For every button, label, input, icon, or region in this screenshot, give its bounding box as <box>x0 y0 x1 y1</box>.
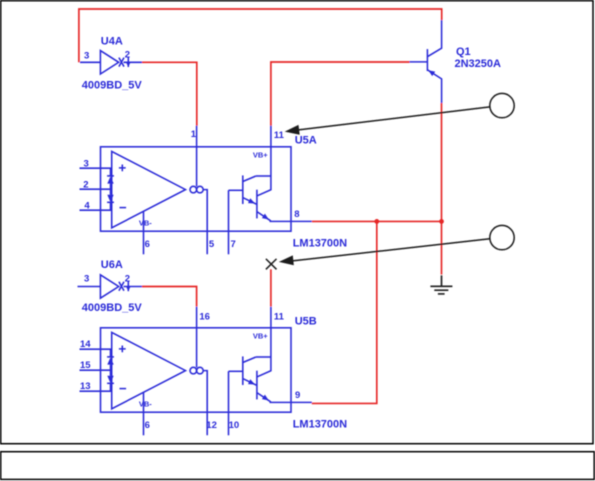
svg-text:12: 12 <box>206 420 217 431</box>
svg-text:11: 11 <box>274 311 285 322</box>
svg-text:9: 9 <box>295 390 300 401</box>
svg-text:VB+: VB+ <box>253 332 268 341</box>
svg-text:U5B: U5B <box>295 315 317 327</box>
svg-text:5: 5 <box>209 239 215 250</box>
svg-text:3: 3 <box>84 158 89 169</box>
svg-text:6: 6 <box>145 420 150 431</box>
svg-text:4009BD_5V: 4009BD_5V <box>82 80 143 92</box>
svg-text:LM13700N: LM13700N <box>293 418 347 430</box>
svg-text:13: 13 <box>80 381 91 392</box>
svg-text:16: 16 <box>199 311 210 322</box>
svg-text:7: 7 <box>231 239 236 250</box>
svg-text:11: 11 <box>274 130 285 141</box>
svg-text:4: 4 <box>84 200 90 211</box>
svg-text:U6A: U6A <box>101 259 123 271</box>
svg-text:VB+: VB+ <box>253 151 268 160</box>
svg-text:LM13700N: LM13700N <box>293 237 347 249</box>
svg-text:10: 10 <box>229 420 240 431</box>
svg-text:U5A: U5A <box>295 134 317 146</box>
svg-text:6: 6 <box>145 239 150 250</box>
svg-text:1: 1 <box>191 129 197 140</box>
svg-text:2N3250A: 2N3250A <box>455 58 502 70</box>
svg-text:2: 2 <box>83 179 88 190</box>
svg-text:3: 3 <box>84 50 89 61</box>
svg-text:VB-: VB- <box>139 218 152 227</box>
svg-text:Q1: Q1 <box>456 46 471 58</box>
svg-text:3: 3 <box>84 274 89 285</box>
svg-text:VB-: VB- <box>139 399 152 408</box>
svg-text:2: 2 <box>125 50 130 61</box>
svg-text:15: 15 <box>80 360 91 371</box>
svg-text:4009BD_5V: 4009BD_5V <box>82 302 143 314</box>
svg-text:U4A: U4A <box>101 35 123 47</box>
svg-text:14: 14 <box>80 339 91 350</box>
svg-text:2: 2 <box>125 274 130 285</box>
svg-text:8: 8 <box>294 209 299 220</box>
